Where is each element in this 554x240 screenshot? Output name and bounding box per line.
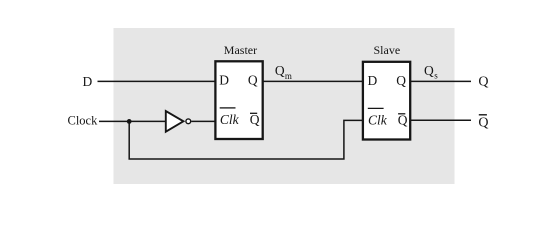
svg-text:Slave: Slave [374,43,401,57]
svg-text:Q: Q [478,75,488,90]
svg-text:Q: Q [250,112,260,127]
svg-text:Clk: Clk [368,113,388,128]
svg-text:Clk: Clk [220,112,240,127]
svg-text:D: D [368,73,378,88]
flip-flop U2 Slave box [363,62,410,140]
svg-text:s: s [434,70,438,80]
svg-text:D: D [83,74,93,89]
wire feedback clock to slave Clk [129,120,363,159]
svg-text:m: m [285,71,292,81]
svg-text:D: D [219,72,229,87]
wire Qm: master Q to slave D [263,80,363,82]
gray panel background [114,28,455,184]
svg-text:Q: Q [478,115,488,130]
svg-text:Master: Master [224,43,257,57]
wire inverter to master Clk [191,120,215,122]
svg-text:Q: Q [396,73,406,88]
node clock junction [127,119,132,124]
wire Qs output [411,80,472,82]
svg-text:Q: Q [275,63,285,78]
wire D input [98,80,216,82]
svg-text:Q: Q [424,63,434,78]
svg-text:Q: Q [398,113,408,128]
wire Qbar output [411,119,472,121]
svg-text:Q: Q [248,72,258,87]
svg-text:Clock: Clock [68,114,99,128]
flip-flop U1 Master box [215,61,262,139]
wire Clock input [99,120,166,122]
inverter (NOT gate) [166,111,191,132]
